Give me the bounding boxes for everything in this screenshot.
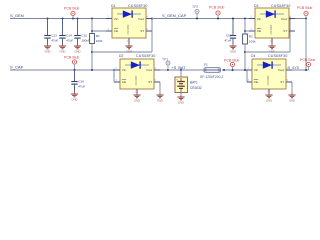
svg-text:D2: D2: [119, 54, 123, 58]
wire stub drop 5: [232, 67, 234, 70]
diode U4: [252, 59, 286, 89]
diode U2: [120, 59, 154, 89]
svg-text:47uF: 47uF: [66, 39, 73, 43]
PCB stub pad 1: [71, 11, 75, 15]
junction C16: [74, 69, 76, 71]
svg-text:CUS08F30: CUS08F30: [128, 4, 148, 8]
pin U3 Vout: [289, 18, 306, 20]
svg-text:47uF: 47uF: [78, 85, 85, 89]
wire stub drop 1: [72, 16, 74, 19]
svg-text:PCB Stub: PCB Stub: [64, 7, 79, 11]
wire feedback vertical: [151, 19, 153, 53]
svg-text:TP2: TP2: [192, 5, 198, 9]
pin numbers U2: [116, 67, 157, 94]
wire battery rail: [168, 69, 204, 71]
pin U2 Vout: [154, 69, 168, 71]
wire stub drop 3: [305, 16, 307, 19]
svg-text:D4: D4: [251, 54, 255, 58]
PCB stub pad 6: [306, 62, 310, 66]
wire TP2 drop: [196, 14, 198, 19]
PCB stub pad 2: [216, 11, 220, 15]
junction CE3: [244, 30, 246, 32]
wire CE4 vertical: [246, 70, 248, 82]
pin U3 ST: [289, 30, 295, 32]
svg-text:R2: R2: [249, 34, 253, 38]
pin stubs U3: [249, 19, 295, 45]
junction BAT1: [180, 69, 182, 71]
wire S_CAP rail: [10, 69, 120, 71]
svg-text:S_GEN_CAP: S_GEN_CAP: [162, 13, 187, 18]
diode U3: [255, 8, 289, 38]
svg-text:C15: C15: [81, 34, 87, 38]
wire CE2 to U2: [114, 81, 120, 83]
svg-text:100k: 100k: [249, 39, 256, 43]
ground under U2: [133, 93, 140, 103]
wire BAT1 drop: [180, 70, 182, 77]
pin stubs U4: [246, 70, 292, 93]
capacitor C15: [74, 19, 80, 45]
ground under C16: [71, 92, 78, 102]
svg-text:100nF: 100nF: [81, 39, 90, 43]
svg-text:PCB Stub: PCB Stub: [224, 59, 239, 63]
svg-text:CUS08F30: CUS08F30: [271, 4, 291, 8]
ground under C13: [44, 44, 51, 54]
svg-text:PCB Stub: PCB Stub: [297, 6, 312, 10]
wire S_GEN_CAP rail: [152, 18, 255, 20]
capacitor C16: [74, 70, 76, 82]
diode U1: [112, 8, 146, 38]
wire CE3 to U3: [245, 30, 255, 32]
pin U3 GND: [271, 38, 273, 44]
svg-text:C13: C13: [51, 34, 57, 38]
wire CE3 vertical: [244, 19, 246, 35]
junction CE2: [113, 69, 115, 71]
junction stub 5: [223, 69, 225, 71]
svg-text:C16: C16: [78, 80, 84, 84]
wire stub drop 4: [74, 64, 76, 70]
junction output bottom: [305, 69, 307, 71]
svg-text:C14: C14: [66, 34, 72, 38]
wire output vertical: [305, 19, 307, 71]
svg-text:PCB Stub: PCB Stub: [209, 6, 224, 10]
ground under ST2: [156, 93, 163, 103]
junction output top: [305, 18, 307, 20]
capacitor C14: [59, 19, 65, 45]
wire feedback2 vertical: [289, 19, 291, 53]
PCB stub pad 4: [72, 60, 76, 64]
wire R2 bottom vertical: [244, 44, 246, 70]
junction R1/feedback: [91, 51, 93, 53]
capacitor C13: [44, 19, 50, 45]
junction PCB stub 1: [72, 18, 74, 20]
pin U2 GND: [136, 89, 138, 93]
pin U4 GND: [268, 89, 270, 93]
wire BAT1 to ground: [180, 93, 182, 96]
junction feedback2 top: [289, 18, 291, 20]
pin numbers U3: [251, 16, 292, 43]
svg-text:BAT1: BAT1: [190, 80, 198, 84]
svg-text:CR2032: CR2032: [190, 86, 202, 90]
junction R2 bottom: [244, 69, 246, 71]
ground under C15: [74, 44, 81, 54]
junction R2/feedback: [244, 51, 246, 53]
ground under ST4: [288, 93, 295, 103]
ground under BAT1: [177, 95, 184, 105]
pin U2 ST: [154, 81, 160, 83]
pin U1 Vout: [146, 18, 152, 20]
resistor R2: [243, 34, 248, 44]
ground under U3: [268, 44, 275, 54]
PCB stub pad 3: [304, 11, 308, 15]
svg-text:+: +: [176, 78, 178, 82]
PCB stub pad 5: [230, 62, 234, 66]
pin numbers U4: [248, 67, 289, 94]
svg-text:D1: D1: [111, 4, 115, 8]
svg-text:R1: R1: [96, 34, 100, 38]
svg-text:PCB Stub: PCB Stub: [300, 58, 315, 62]
pin U1 ST: [146, 30, 152, 32]
junction feedback top: [151, 18, 153, 20]
svg-text:47uF: 47uF: [51, 39, 58, 43]
junction C14: [62, 18, 64, 20]
junction C15: [77, 18, 79, 20]
svg-text:F1: F1: [204, 63, 208, 67]
junction R2 chain: [244, 18, 246, 20]
svg-text:S_SYS: S_SYS: [288, 66, 300, 70]
svg-text:CUS08F30: CUS08F30: [136, 54, 156, 58]
svg-text:47uF: 47uF: [224, 39, 231, 43]
pin U1 GND: [128, 38, 130, 44]
wire CE1 vertical: [91, 19, 93, 34]
svg-text:SF-1206F200-2: SF-1206F200-2: [200, 75, 224, 79]
battery BAT1: [175, 77, 188, 93]
wire ST2 down: [159, 82, 161, 93]
junction R1 chain: [91, 18, 93, 20]
pin numbers U1: [108, 16, 149, 43]
wire after fuse: [222, 69, 252, 71]
junction TP1: [167, 69, 169, 71]
pin stubs U2: [114, 70, 160, 93]
ground under U4: [265, 93, 272, 103]
svg-text:PCB Stub: PCB Stub: [64, 56, 79, 60]
pin stubs U1: [106, 19, 152, 45]
svg-text:100k: 100k: [96, 39, 103, 43]
svg-text:D3: D3: [254, 4, 258, 8]
ground under C17: [229, 44, 236, 54]
junction stub 2: [217, 18, 219, 20]
wire feedback horizontal: [92, 51, 152, 53]
wire R1 bottom vertical: [91, 44, 93, 71]
wire stub drop 2: [217, 15, 219, 18]
resistor R1: [90, 34, 95, 44]
wire ST4 down: [291, 82, 293, 93]
ground under U1: [125, 44, 132, 54]
capacitor C17: [230, 19, 236, 45]
junction C13: [47, 18, 49, 20]
wire CE2 vertical: [113, 70, 115, 82]
pin U4 Vout: [286, 69, 309, 71]
wire TP1 drop: [167, 65, 169, 70]
svg-text:S_GEN: S_GEN: [10, 13, 24, 18]
junction CE1: [91, 30, 93, 32]
pin U4 ST: [286, 81, 292, 83]
svg-text:S_CAP: S_CAP: [10, 65, 24, 70]
svg-text:C17: C17: [226, 34, 232, 38]
junction TP2: [196, 18, 198, 20]
wire CE4 to U4: [247, 81, 252, 83]
wire stub drop 6: [308, 67, 310, 70]
junction R1 bottom: [91, 69, 93, 71]
svg-text:CUS08F30: CUS08F30: [268, 54, 288, 58]
ground under C14: [59, 44, 66, 54]
wire feedback2 horizontal: [245, 51, 290, 53]
wire CE1 to U1: [92, 30, 112, 32]
wire S_GEN rail: [10, 18, 112, 20]
junction C17: [232, 18, 234, 20]
